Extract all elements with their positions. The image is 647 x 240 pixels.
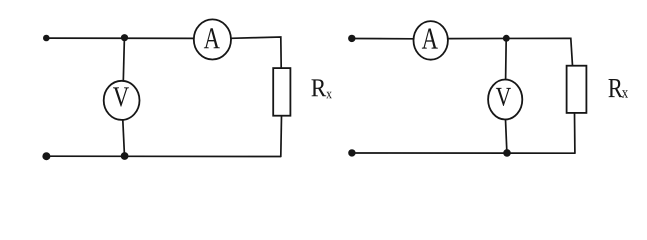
- label R (left resistor Rx): [311, 79, 326, 96]
- label x subscript (left resistor Rx): [326, 92, 332, 98]
- label R (right resistor Rx): [608, 79, 622, 97]
- label A (right ammeter): [422, 28, 438, 48]
- wire: left voltmeter bottom lead: [123, 120, 125, 156]
- node: right circuit bottom junction: [503, 149, 511, 157]
- wire: left circuit bottom rail: [47, 155, 281, 157]
- label x subscript (right resistor Rx): [622, 90, 628, 97]
- voltmeter V (right circuit): [488, 80, 522, 120]
- node: right circuit top junction: [503, 35, 510, 42]
- node: left circuit bottom-left terminal: [42, 152, 50, 160]
- wire: right circuit bottom rail: [352, 152, 575, 154]
- wire: left circuit resistor bottom lead: [280, 116, 283, 156]
- node: right circuit bottom-left terminal: [348, 149, 355, 156]
- wire: left circuit ammeter to resistor top: [231, 37, 281, 68]
- wire: left circuit top rail: [47, 37, 194, 39]
- wire: right circuit ammeter to resistor top: [448, 38, 572, 65]
- wire: left voltmeter top lead: [123, 38, 124, 81]
- voltmeter V (left circuit): [104, 81, 140, 120]
- wire: right circuit resistor bottom lead: [574, 113, 576, 153]
- wire: right circuit top rail left segment: [352, 38, 414, 40]
- node: right circuit top-left terminal: [348, 35, 355, 42]
- ammeter A (left circuit): [194, 19, 231, 59]
- label V (right voltmeter): [496, 88, 511, 106]
- wire: right voltmeter bottom lead: [506, 120, 507, 153]
- resistor Rx (right circuit): [567, 66, 587, 113]
- wire: right voltmeter top lead: [505, 38, 508, 79]
- node: left circuit top-left terminal: [43, 35, 50, 42]
- label A (left ammeter): [204, 28, 220, 48]
- resistor Rx (left circuit): [273, 68, 290, 116]
- label V (left voltmeter): [113, 87, 129, 106]
- node: left circuit bottom junction: [121, 152, 129, 160]
- node: left circuit top junction: [121, 34, 128, 41]
- ammeter A (right circuit): [414, 21, 448, 60]
